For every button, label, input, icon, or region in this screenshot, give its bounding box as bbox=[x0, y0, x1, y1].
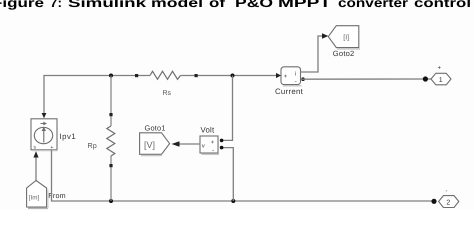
svg-text:[I]: [I] bbox=[343, 33, 349, 41]
From block [Im] bbox=[27, 181, 48, 209]
resistor Rs bbox=[135, 71, 198, 79]
svg-text:Volt: Volt bbox=[201, 126, 215, 135]
goto tag Goto1 [V] bbox=[140, 133, 170, 156]
svg-text:+: + bbox=[438, 66, 442, 72]
svg-text:-: - bbox=[212, 147, 214, 154]
junction on top bus at Volt + branch bbox=[231, 74, 235, 78]
svg-text:v: v bbox=[202, 144, 205, 150]
wire: Volt - terminal to bottom bus bbox=[223, 148, 233, 201]
svg-text:1: 1 bbox=[439, 77, 443, 84]
wire: top bus to Volt + terminal bbox=[223, 76, 233, 141]
svg-text:P&O: P&O bbox=[235, 0, 273, 10]
svg-text:Simulink: Simulink bbox=[68, 0, 146, 10]
svg-text:+: + bbox=[211, 140, 215, 146]
svg-text:Goto1: Goto1 bbox=[145, 124, 166, 133]
svg-text:i: i bbox=[295, 70, 296, 77]
svg-text:+: + bbox=[284, 74, 288, 80]
current source Ipv1 bbox=[31, 119, 58, 151]
svg-text:model: model bbox=[151, 0, 203, 10]
svg-text:Rs: Rs bbox=[163, 90, 172, 97]
wire: Ipv1 - terminal down to bottom bus, bus to port 2 bbox=[52, 150, 435, 201]
svg-text:Goto2: Goto2 bbox=[333, 49, 355, 58]
resistor Rp (vertical) bbox=[107, 76, 115, 202]
svg-text:-: - bbox=[295, 78, 297, 85]
arrow up into Ipv1 bottom-left bbox=[33, 151, 38, 157]
wire: Volt v output to Goto1 bbox=[180, 143, 201, 145]
svg-text:converter: converter bbox=[338, 0, 408, 10]
output port 1 bbox=[431, 73, 451, 85]
wire: From block to Ipv1 signal input bbox=[35, 157, 37, 181]
junction on top bus at Rp branch bbox=[109, 74, 113, 78]
arrow into Ipv1 + terminal (down) bbox=[42, 113, 47, 118]
goto tag Goto2 [I] bbox=[328, 26, 360, 49]
voltage measurement block Volt bbox=[200, 136, 223, 154]
svg-text:-: - bbox=[446, 189, 448, 195]
svg-text:7:: 7: bbox=[50, 0, 62, 10]
junction bottom bus at Volt - branch bbox=[231, 199, 235, 203]
output port 2 bbox=[439, 196, 459, 208]
junction bottom bus at Rp bbox=[109, 199, 113, 203]
svg-text:Figure: Figure bbox=[0, 0, 44, 10]
svg-text:[V]: [V] bbox=[144, 140, 155, 150]
svg-text:control: control bbox=[414, 0, 471, 10]
svg-text:2: 2 bbox=[446, 199, 450, 206]
svg-text:Rp: Rp bbox=[88, 141, 97, 150]
wire: Current i output to Goto2 bbox=[301, 36, 323, 72]
wire: top bus from Ipv1 to Current block bbox=[44, 76, 277, 114]
svg-text:of: of bbox=[209, 0, 226, 10]
current measurement block Current bbox=[281, 67, 302, 86]
svg-text:Ipv1: Ipv1 bbox=[60, 132, 77, 141]
arrow right into Goto2 bbox=[322, 33, 328, 38]
caption: Figure 7: Simulink model of P&O MPPT converter control bbox=[0, 0, 471, 10]
terminal dot at Current - output bbox=[301, 77, 305, 81]
wire: Current - to output port 1 bbox=[302, 78, 432, 80]
junction before port 2 bbox=[431, 199, 436, 204]
svg-text:MPPT: MPPT bbox=[278, 0, 331, 10]
arrow into Current block left bbox=[276, 73, 281, 78]
junction before port 1 bbox=[423, 76, 428, 81]
arrow left into Goto1 bbox=[172, 141, 180, 147]
svg-text:Current: Current bbox=[275, 87, 304, 96]
svg-text:[Im]: [Im] bbox=[29, 195, 40, 202]
